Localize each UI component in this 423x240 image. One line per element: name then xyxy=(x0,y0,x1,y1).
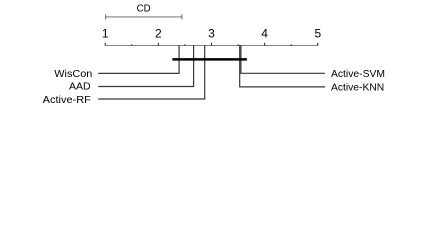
clique bar xyxy=(172,58,247,61)
CD interval bracket xyxy=(106,14,182,19)
svg-text:4: 4 xyxy=(261,27,268,41)
Active-SVM rank line xyxy=(241,45,325,73)
WisCon rank line xyxy=(98,45,179,73)
method labels xyxy=(43,69,385,106)
AAD rank line xyxy=(98,45,193,86)
svg-text:2: 2 xyxy=(155,27,162,41)
svg-text:Active-SVM: Active-SVM xyxy=(331,69,385,80)
Active-KNN rank line xyxy=(240,45,325,87)
svg-text:Active-KNN: Active-KNN xyxy=(331,82,384,93)
Active-RF rank line xyxy=(98,45,204,99)
svg-text:AAD: AAD xyxy=(69,82,91,93)
svg-text:CD: CD xyxy=(137,4,151,15)
svg-text:1: 1 xyxy=(102,27,109,41)
svg-text:WisCon: WisCon xyxy=(54,69,92,80)
minor ticks xyxy=(131,44,133,45)
major ticks xyxy=(104,43,106,46)
tick numbers xyxy=(102,27,322,41)
svg-text:5: 5 xyxy=(314,27,321,41)
rank axis xyxy=(105,44,318,46)
svg-text:Active-RF: Active-RF xyxy=(43,95,91,106)
method rank lines xyxy=(98,45,325,99)
svg-text:3: 3 xyxy=(208,27,215,41)
